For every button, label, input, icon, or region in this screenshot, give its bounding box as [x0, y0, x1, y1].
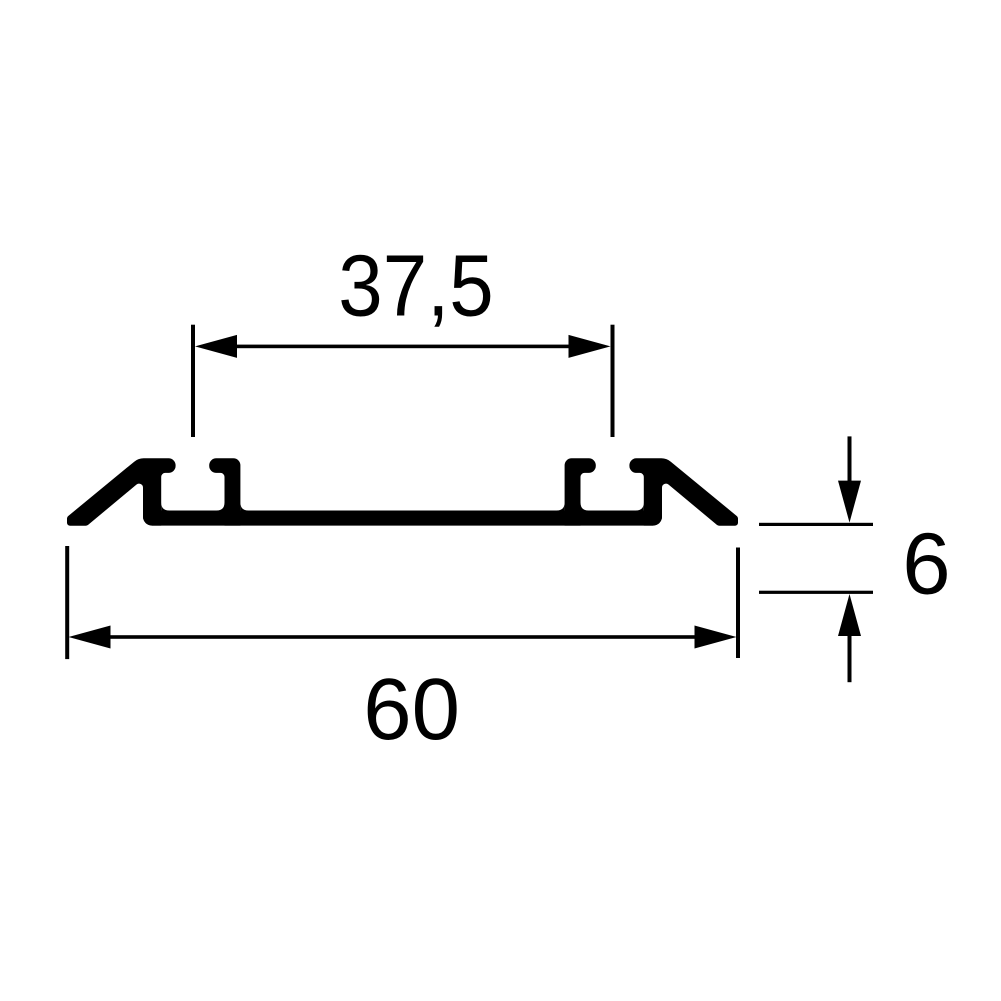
svg-text:37,5: 37,5 — [338, 236, 493, 334]
svg-text:6: 6 — [902, 516, 950, 613]
svg-text:60: 60 — [363, 661, 460, 758]
